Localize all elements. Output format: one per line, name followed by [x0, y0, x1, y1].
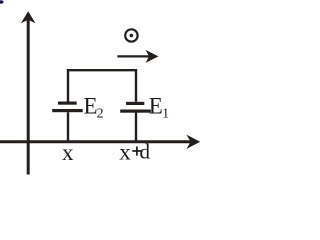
velocity arrow	[117, 50, 158, 63]
wire right lower	[135, 113, 137, 142]
svg-text:E: E	[149, 94, 163, 119]
wire right upper	[135, 69, 137, 102]
wire top	[67, 69, 137, 71]
svg-text:E: E	[84, 94, 98, 119]
x-axis	[0, 135, 200, 149]
battery E2	[52, 102, 82, 113]
battery E1	[120, 102, 151, 113]
svg-text:d: d	[140, 140, 151, 164]
label x+d	[119, 139, 150, 164]
svg-text:x: x	[62, 140, 74, 165]
svg-text:1: 1	[162, 106, 169, 121]
svg-text:2: 2	[97, 107, 104, 122]
svg-text:x: x	[119, 139, 131, 164]
label E1	[149, 94, 169, 121]
label E2	[84, 94, 104, 122]
y-axis	[21, 11, 36, 174]
field symbol B out of page	[125, 29, 137, 41]
wire left lower	[67, 112, 69, 142]
wire left upper	[67, 69, 69, 102]
